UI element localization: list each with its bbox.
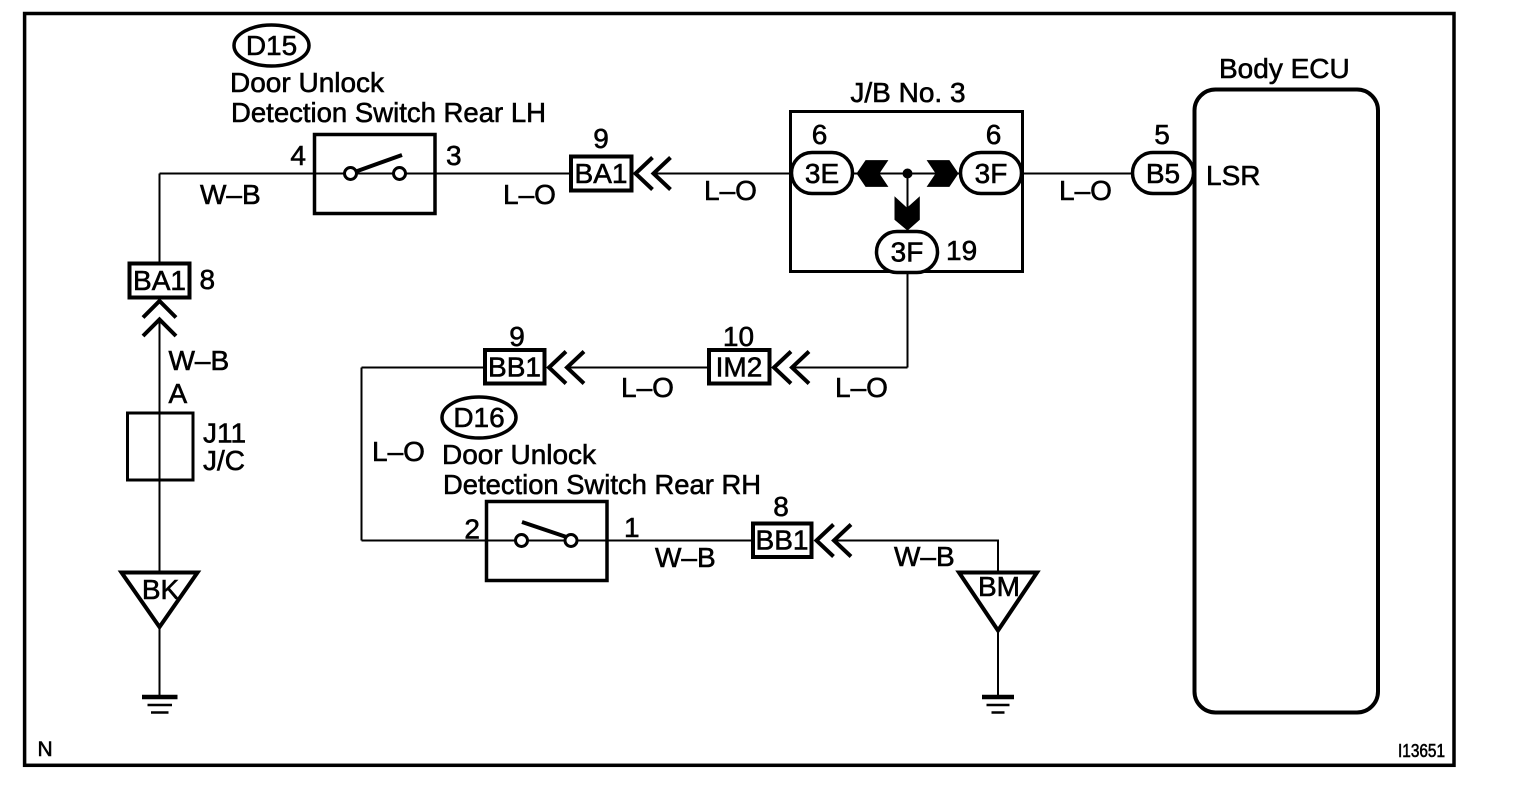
svg-text:L–O: L–O <box>372 436 425 467</box>
svg-text:3E: 3E <box>805 158 839 189</box>
svg-text:6: 6 <box>986 119 1002 150</box>
svg-text:W–B: W–B <box>169 345 230 376</box>
connector BA1 left <box>130 264 190 298</box>
svg-text:BB1: BB1 <box>756 525 809 556</box>
oval D16 <box>442 397 516 438</box>
wire row1 left vertical drop to BA1 <box>159 174 161 263</box>
svg-text:3: 3 <box>446 140 462 171</box>
chevrons BB1 row3 <box>817 525 834 557</box>
wire BK apex to ground <box>159 627 161 696</box>
svg-text:W–B: W–B <box>894 541 955 572</box>
svg-text:6: 6 <box>812 119 828 150</box>
ground BK <box>142 695 178 700</box>
wire through switch D15 <box>314 173 435 175</box>
svg-text:W–B: W–B <box>655 542 716 573</box>
wire 3F to B5 <box>1021 173 1133 175</box>
svg-text:J/B No. 3: J/B No. 3 <box>850 77 965 108</box>
connector BB1 row2 <box>485 350 545 384</box>
svg-text:N: N <box>38 738 53 761</box>
switch D16 contacts <box>516 535 528 547</box>
svg-text:3F: 3F <box>891 237 924 268</box>
triangle BK <box>122 573 198 628</box>
wire left vertical row2-row3 <box>361 368 363 541</box>
svg-text:I13651: I13651 <box>1398 740 1445 761</box>
svg-text:Door Unlock: Door Unlock <box>230 67 385 98</box>
svg-text:D15: D15 <box>246 30 297 61</box>
svg-text:J11: J11 <box>203 418 246 449</box>
svg-text:8: 8 <box>200 264 216 295</box>
oval 3F bottom <box>877 232 938 273</box>
svg-text:L–O: L–O <box>704 175 757 206</box>
chevrons BA1 left (up) <box>143 301 176 318</box>
connector BB1 row3 <box>753 524 812 558</box>
wire BM apex to ground <box>997 630 999 696</box>
svg-text:9: 9 <box>509 321 525 352</box>
svg-text:L–O: L–O <box>503 179 556 210</box>
wire 3F oval down <box>907 272 909 368</box>
svg-text:W–B: W–B <box>200 179 261 210</box>
connector BA1 top <box>571 157 632 191</box>
arrow down (toward 3F bottom) <box>895 196 920 230</box>
wire BA1-left chevrons down to J/C <box>159 320 161 573</box>
oval D15 <box>234 25 309 66</box>
junction J11 J/C box <box>128 413 194 480</box>
junction dot <box>903 169 913 179</box>
svg-text:4: 4 <box>290 140 306 171</box>
ground BM <box>982 695 1014 700</box>
triangle BM <box>959 573 1037 631</box>
svg-text:D16: D16 <box>453 402 504 433</box>
wire junction dot down to 3F oval <box>907 174 909 233</box>
svg-text:2: 2 <box>464 514 480 545</box>
switch D16 box <box>487 502 608 581</box>
wire BB1 to left vertical <box>362 367 486 369</box>
svg-text:9: 9 <box>593 123 609 154</box>
wire row2 right horizontal <box>792 367 908 369</box>
arrow right (toward 3F) <box>927 160 959 187</box>
svg-text:Body ECU: Body ECU <box>1219 53 1350 84</box>
svg-text:BK: BK <box>142 574 180 605</box>
svg-text:3F: 3F <box>975 158 1008 189</box>
chevrons BB1 row2 <box>549 352 566 384</box>
wire row3 into switch D16 <box>362 540 487 542</box>
wire IM2 to BB1 chevrons <box>567 367 709 369</box>
oval B5 <box>1133 153 1194 194</box>
svg-text:LSR: LSR <box>1206 160 1260 191</box>
svg-text:1: 1 <box>624 512 640 543</box>
svg-text:5: 5 <box>1154 119 1170 150</box>
svg-text:10: 10 <box>723 321 754 352</box>
wire switch D15 to BA1 connector <box>435 173 570 175</box>
svg-text:L–O: L–O <box>1059 175 1112 206</box>
svg-text:19: 19 <box>946 235 977 266</box>
svg-text:L–O: L–O <box>621 372 674 403</box>
oval 3F right <box>961 153 1022 194</box>
wire BB1 chevrons to BM corner <box>834 541 998 574</box>
wire inside J/B between arrows <box>853 173 961 175</box>
wire row1 left horizontal <box>160 173 315 175</box>
connector IM2 <box>709 350 770 384</box>
svg-text:A: A <box>169 378 188 409</box>
chevrons BA1 top <box>636 158 653 190</box>
svg-text:B5: B5 <box>1146 158 1180 189</box>
svg-text:BM: BM <box>978 571 1020 602</box>
svg-text:BA1: BA1 <box>575 158 628 189</box>
Body ECU box <box>1195 90 1379 713</box>
wire through switch D16 <box>487 540 608 542</box>
J/B No.3 box <box>791 112 1023 272</box>
svg-text:BB1: BB1 <box>488 352 541 383</box>
svg-text:BA1: BA1 <box>133 265 186 296</box>
svg-text:L–O: L–O <box>835 372 888 403</box>
chevrons IM2 <box>774 352 791 384</box>
wire switch D16 to BB1 <box>607 540 753 542</box>
switch D15 lever <box>356 155 402 172</box>
arrow left (toward 3E) <box>857 160 889 187</box>
svg-text:Detection Switch Rear LH: Detection Switch Rear LH <box>231 97 546 128</box>
switch D15 box <box>315 135 436 214</box>
svg-text:8: 8 <box>773 491 789 522</box>
wire BA1 chevrons to J/B <box>654 173 793 175</box>
svg-text:Detection Switch Rear RH: Detection Switch Rear RH <box>443 469 761 500</box>
switch D15 contacts <box>345 168 357 180</box>
oval 3E <box>792 153 853 194</box>
svg-text:IM2: IM2 <box>716 352 763 383</box>
svg-text:J/C: J/C <box>203 445 245 476</box>
switch D16 lever <box>522 522 567 537</box>
svg-text:Door Unlock: Door Unlock <box>442 439 597 470</box>
